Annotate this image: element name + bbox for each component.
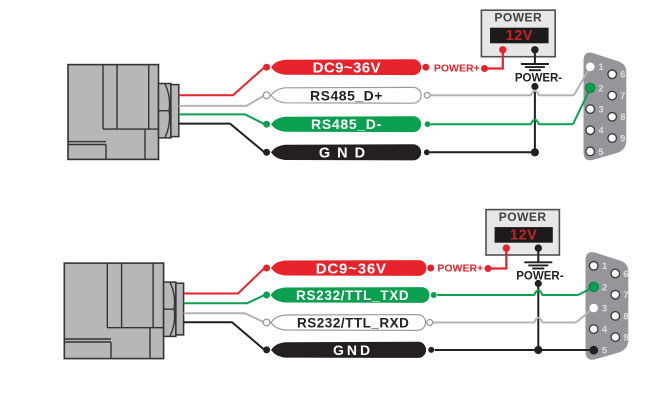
svg-text:POWER+: POWER+ xyxy=(434,63,480,75)
svg-text:6: 6 xyxy=(620,70,625,81)
svg-text:GND: GND xyxy=(319,145,372,161)
svg-text:6: 6 xyxy=(623,269,628,280)
svg-text:12V: 12V xyxy=(506,28,533,44)
svg-text:9: 9 xyxy=(620,134,625,145)
svg-text:POWER+: POWER+ xyxy=(437,263,483,275)
svg-text:12V: 12V xyxy=(510,228,537,244)
svg-text:5: 5 xyxy=(602,346,608,357)
svg-text:POWER: POWER xyxy=(499,210,547,224)
svg-text:4: 4 xyxy=(598,126,604,137)
svg-text:RS485_D+: RS485_D+ xyxy=(310,87,383,103)
svg-text:9: 9 xyxy=(623,333,628,344)
svg-text:4: 4 xyxy=(602,325,608,336)
svg-text:7: 7 xyxy=(623,290,628,301)
svg-text:8: 8 xyxy=(623,311,628,322)
svg-text:7: 7 xyxy=(620,91,625,102)
svg-text:1: 1 xyxy=(602,261,608,272)
svg-text:3: 3 xyxy=(602,303,607,314)
svg-text:3: 3 xyxy=(598,105,603,116)
svg-text:8: 8 xyxy=(620,112,625,123)
svg-text:2: 2 xyxy=(602,282,607,293)
svg-text:RS232/TTL_RXD: RS232/TTL_RXD xyxy=(297,316,409,331)
svg-text:DC9~36V: DC9~36V xyxy=(316,260,387,277)
svg-text:POWER-: POWER- xyxy=(515,72,562,84)
svg-text:1: 1 xyxy=(598,62,604,73)
svg-text:5: 5 xyxy=(598,147,604,158)
svg-text:DC9~36V: DC9~36V xyxy=(313,60,381,77)
svg-text:GND: GND xyxy=(333,342,373,358)
svg-text:POWER: POWER xyxy=(494,11,542,25)
svg-text:RS485_D-: RS485_D- xyxy=(311,116,382,132)
svg-text:2: 2 xyxy=(598,83,603,94)
svg-text:RS232/TTL_TXD: RS232/TTL_TXD xyxy=(296,288,409,303)
